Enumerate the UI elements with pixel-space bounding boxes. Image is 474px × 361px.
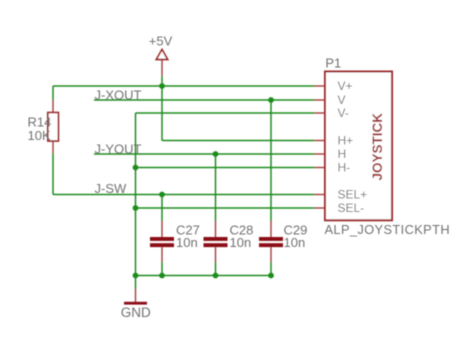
net J-XOUT wire (94, 99, 315, 101)
net GND: bottom rail wire (136, 275, 272, 277)
svg-text:10n: 10n (230, 235, 252, 250)
junction H- at x=135.5 (133, 165, 139, 171)
ground symbol GND (121, 276, 151, 321)
svg-text:ALP_JOYSTICKPTH: ALP_JOYSTICKPTH (325, 222, 450, 237)
junction J-XOUT at x=271 (268, 97, 274, 103)
pin stub H- (315, 167, 326, 169)
svg-text:SEL-: SEL- (338, 201, 365, 215)
svg-text:P1: P1 (325, 56, 341, 71)
junction J-SW at x=162 (159, 192, 165, 198)
junction J-YOUT at x=215.5 (213, 151, 219, 157)
pin stub H (315, 153, 326, 155)
net J-YOUT wire (94, 153, 315, 155)
connector P1 outline (325, 72, 392, 221)
svg-text:H: H (338, 147, 347, 161)
pin stub V (315, 99, 326, 101)
svg-text:J-YOUT: J-YOUT (95, 141, 142, 156)
net J-SW wire (53, 194, 315, 196)
pin stub SEL- (315, 207, 326, 209)
junction +5V rail at x=162 (159, 83, 165, 89)
net +5V: top rail wire (53, 85, 315, 87)
junction bottom rail x=215.5 (213, 273, 219, 279)
pin stub SEL+ (315, 194, 326, 196)
svg-text:V: V (338, 93, 346, 107)
svg-text:GND: GND (121, 305, 151, 320)
net GND: SEL- wire (136, 207, 315, 209)
net GND: H- wire (136, 167, 315, 169)
svg-text:10n: 10n (176, 235, 198, 250)
svg-text:V-: V- (338, 106, 349, 120)
svg-text:+5V: +5V (149, 34, 173, 49)
capacitor C27 (150, 195, 174, 276)
pin stub H+ (315, 140, 326, 142)
net GND: left vertical wire (135, 113, 137, 276)
capacitor C28 (204, 154, 228, 276)
svg-text:JOYSTICK: JOYSTICK (370, 113, 385, 181)
svg-text:J-SW: J-SW (95, 181, 128, 196)
junction bottom rail x=271 (268, 273, 274, 279)
junction bottom rail x=135.5 (133, 273, 139, 279)
resistor R14 (48, 86, 59, 195)
svg-text:10n: 10n (284, 235, 306, 250)
capacitor C29 (259, 100, 283, 276)
svg-text:V+: V+ (338, 79, 353, 93)
wire +5V vertical feed to H+ (162, 86, 315, 141)
svg-text:H-: H- (338, 161, 351, 175)
svg-text:J-XOUT: J-XOUT (95, 87, 142, 102)
svg-text:10K: 10K (28, 128, 51, 143)
svg-text:H+: H+ (338, 134, 354, 148)
pin stub V+ (315, 85, 326, 87)
svg-text:SEL+: SEL+ (338, 188, 368, 202)
junction bottom rail x=162 (159, 273, 165, 279)
junction SEL- at x=135.5 (133, 205, 139, 211)
pin stub V- (315, 112, 326, 114)
net GND: V- wire (136, 112, 315, 114)
supply symbol +5V (149, 34, 173, 86)
